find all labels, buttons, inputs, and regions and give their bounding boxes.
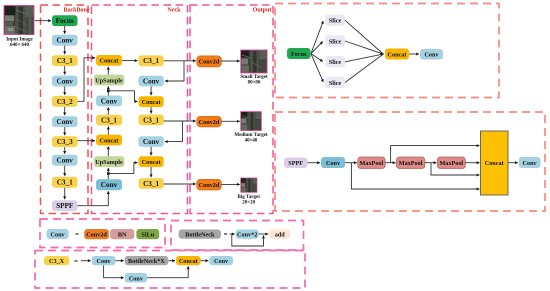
legend2 Conv*2	[236, 230, 259, 239]
svg-text:Focus: Focus	[291, 51, 307, 58]
wire C3_1(col2)->Conv(col2) up	[107, 107, 109, 114]
wire C3_2->Conv	[64, 107, 66, 115]
svg-text:Conv: Conv	[97, 258, 112, 265]
svg-text:Focus: Focus	[56, 17, 74, 25]
legend2 BottleNeck	[179, 230, 221, 239]
svg-text:Concat: Concat	[179, 258, 199, 265]
svg-text:Conv: Conv	[143, 78, 160, 86]
svg-text:SiLu: SiLu	[141, 232, 154, 239]
svg-text:Conv: Conv	[57, 118, 74, 126]
medium target image	[241, 112, 262, 131]
svg-text:BottleNeck*X: BottleNeck*X	[128, 258, 165, 265]
wire skip MaxPool1 up to Concat	[391, 146, 480, 163]
wire C3_3->Conv	[64, 147, 66, 154]
svg-text:C3_2: C3_2	[57, 98, 73, 106]
backbone Conv 2	[52, 76, 78, 87]
neck col2 UpSample top	[94, 75, 125, 86]
svg-text:SPPF: SPPF	[56, 202, 74, 210]
backbone Conv 1	[52, 35, 78, 46]
svg-text:Output: Output	[253, 8, 272, 14]
svg-text:C3_1: C3_1	[143, 180, 159, 188]
neck label	[168, 8, 182, 14]
svg-text:Conv: Conv	[57, 157, 74, 165]
wire Conv(col3)#2->Concat#2 down	[150, 147, 152, 155]
wire C3_2->Concat(col2) elbow	[78, 58, 96, 102]
backbone Conv 4	[52, 155, 78, 166]
wire UpSample top->Concat top up	[107, 67, 109, 75]
legend3 Concat	[176, 256, 201, 265]
legend2 equals	[224, 231, 228, 239]
legend3 wire BottleNeck*X->Concat	[168, 260, 175, 262]
svg-text:C3_X: C3_X	[49, 258, 65, 265]
neck col3 C3_1 mid	[139, 115, 164, 126]
backbone SPPF	[52, 200, 78, 211]
neck col3 Conv top	[139, 76, 164, 87]
wire MaxPool2->MaxPool3	[425, 162, 437, 164]
panel1 Slice 2	[325, 35, 345, 47]
svg-text:BackBone: BackBone	[63, 8, 89, 14]
svg-text:MaxPool: MaxPool	[439, 160, 463, 167]
wire Concat(col3)->C3_1 mid down	[150, 107, 152, 114]
backbone Conv 3	[52, 116, 78, 127]
svg-text:Conv: Conv	[51, 232, 66, 239]
legend1 equals	[75, 231, 79, 239]
panel2 MaxPool 1	[358, 157, 385, 169]
legend3 wire branch down to lower Conv	[104, 265, 124, 277]
svg-text:20×20: 20×20	[242, 200, 255, 205]
wire C3_1 bottom->Conv2d#3	[164, 183, 196, 185]
backbone C3_1	[52, 55, 78, 66]
legend3 Conv first	[92, 256, 116, 265]
svg-text:=: =	[224, 231, 228, 239]
legend3 wire lower Conv->Concat bottom	[147, 266, 188, 277]
neck col3 Conv bottom	[139, 136, 164, 147]
svg-text:Conv: Conv	[101, 181, 118, 189]
svg-text:40×40: 40×40	[245, 138, 258, 143]
wire C3_1->Conv	[64, 66, 66, 75]
sppf expansion dashed panel	[275, 112, 545, 211]
wire Concat(col2)->C3_1(col3)	[122, 60, 138, 62]
medium target caption	[234, 133, 268, 143]
wire Conv->C3_2	[64, 87, 66, 95]
backbone C3_1b	[52, 177, 78, 188]
svg-text:C3_3: C3_3	[57, 138, 73, 146]
neck col2 Concat top	[96, 55, 122, 66]
legend2 wire ->Conv*2	[230, 233, 235, 235]
output Conv2d big	[197, 179, 222, 190]
output Conv2d small	[197, 56, 222, 67]
panel2 Concat tall	[481, 131, 509, 195]
svg-text:Slice: Slice	[329, 80, 342, 87]
legend2 residual wire	[232, 235, 264, 247]
svg-text:BN: BN	[118, 232, 127, 239]
wire C3_1 mid->Conv2d#2 with branch	[164, 121, 196, 142]
neck col2 C3_1	[96, 115, 122, 126]
legend3 BottleNeck*X	[125, 256, 169, 265]
svg-text:C3_1: C3_1	[143, 116, 159, 124]
backbone label	[63, 8, 89, 14]
wire Conv(col2 bottom)->UpSample up	[107, 168, 109, 179]
panel2 Conv right	[519, 157, 541, 168]
wire lateral low: junction->Concat(col3)#2	[108, 163, 137, 174]
svg-text:Conv: Conv	[101, 97, 118, 105]
neck col3 Concat top	[139, 96, 164, 107]
svg-text:MaxPool: MaxPool	[399, 160, 423, 167]
svg-text:Slice: Slice	[329, 38, 342, 45]
legend1 Conv	[47, 229, 69, 239]
wire Concat->Conv panel1	[409, 53, 419, 55]
wire Conv2d#2->medium target	[221, 120, 240, 122]
wire Conv(col2)->UpSample top up	[107, 86, 109, 95]
output label	[253, 8, 272, 14]
svg-text:Concat: Concat	[100, 137, 120, 144]
wire skip MaxPool2 down to Concat	[431, 163, 480, 175]
svg-text:C3_1: C3_1	[101, 117, 117, 125]
legend3 equals	[74, 257, 78, 265]
svg-text:Neck: Neck	[168, 8, 182, 14]
svg-text:=: =	[74, 257, 78, 265]
svg-text:Concat: Concat	[142, 99, 162, 106]
legend3 lower Conv	[125, 273, 147, 283]
svg-text:Concat: Concat	[100, 58, 120, 65]
panel1 Focus	[287, 48, 311, 59]
wire Conv->C3_1	[64, 46, 66, 55]
svg-text:Conv: Conv	[523, 160, 538, 167]
neck col3 C3_1 bottom	[139, 178, 164, 189]
panel1 Slice 4	[325, 77, 345, 89]
wires Focus->Slices fan	[311, 21, 323, 82]
neck col2 UpSample bottom	[94, 156, 125, 167]
wire Conv->C3_3	[64, 127, 66, 135]
wire Conv->MaxPool1	[345, 162, 357, 164]
small target image	[241, 50, 267, 73]
wire input->Focus	[35, 20, 51, 22]
wires Slices->Concat fan	[345, 20, 384, 82]
svg-text:Input Image: Input Image	[6, 38, 33, 43]
svg-text:Concat: Concat	[142, 159, 162, 166]
wire SPPF->Conv(col2) elbow	[78, 191, 109, 206]
focus expansion dashed panel	[275, 4, 499, 98]
output dashed region	[190, 5, 273, 214]
svg-text:Conv*2: Conv*2	[237, 232, 257, 239]
svg-text:Conv: Conv	[214, 258, 229, 265]
svg-text:C3_1: C3_1	[57, 179, 73, 187]
svg-text:UpSample: UpSample	[95, 77, 123, 84]
legend3 wire Concat->Conv	[201, 260, 209, 262]
neck col2 Conv top	[96, 96, 122, 107]
output Conv2d medium	[197, 116, 222, 126]
neck dashed region	[92, 5, 188, 214]
legend1 BN	[110, 229, 134, 239]
legend1 Conv2d	[84, 229, 109, 239]
panel1 Conv	[420, 49, 443, 60]
panel2 SPPF	[284, 158, 308, 169]
svg-text:80×80: 80×80	[248, 80, 261, 85]
wire skip Conv down to Concat	[351, 163, 479, 189]
legend3 C3_X	[44, 256, 69, 265]
wire MaxPool3->Concat	[465, 162, 479, 164]
wire Concat#2->C3_1 bottom down	[150, 167, 152, 177]
neck col2 Concat bottom	[96, 135, 122, 146]
wire Conv2d#3->big target	[221, 183, 240, 185]
svg-text:Conv2d: Conv2d	[199, 59, 220, 66]
input image thumbnail	[4, 6, 34, 35]
wire Conv->C3_1b	[64, 166, 66, 176]
svg-text:C3_1: C3_1	[57, 57, 73, 65]
panel2 MaxPool 3	[437, 157, 465, 169]
neck col2 Conv bottom	[96, 179, 122, 190]
wire lateral up: junction->Concat(col3)#1	[108, 91, 137, 102]
svg-text:Concat: Concat	[485, 160, 505, 167]
legend2 add	[269, 230, 290, 239]
panel2 MaxPool 2	[397, 157, 425, 169]
svg-text:Conv: Conv	[57, 78, 74, 86]
panel1 Concat	[385, 49, 409, 60]
svg-text:C3_1: C3_1	[143, 57, 159, 65]
small target caption	[240, 75, 268, 85]
legend2 wire Conv*2->add	[259, 233, 269, 235]
wire C3_3->Concat2(col2)	[78, 140, 96, 142]
svg-text:Concat: Concat	[388, 51, 408, 58]
wire UpSample->Concat2(col2) up	[107, 146, 109, 156]
wire C3_1(col3)->Conv2d#1 with branch	[164, 61, 196, 81]
big target image	[241, 178, 257, 192]
svg-text:BottleNeck: BottleNeck	[185, 232, 215, 239]
svg-text:Slice: Slice	[329, 18, 342, 25]
input image caption	[6, 38, 33, 49]
svg-text:Slice: Slice	[329, 59, 342, 66]
svg-text:UpSample: UpSample	[95, 159, 123, 166]
legend1 dashed box	[40, 219, 165, 248]
svg-text:add: add	[275, 232, 286, 239]
panel1 Slice 1	[325, 15, 345, 27]
backbone C3_3	[52, 136, 78, 147]
legend3 wire ->Conv	[81, 260, 91, 262]
svg-text:MaxPool: MaxPool	[360, 160, 384, 167]
legend2 dashed box	[171, 221, 304, 251]
legend3 wire Conv->BottleNeck*X	[116, 260, 124, 262]
svg-text:Conv2d: Conv2d	[86, 232, 107, 239]
wire Concat->Conv panel2	[508, 162, 518, 164]
svg-text:SPPF: SPPF	[288, 160, 303, 167]
legend1 SiLu	[136, 229, 159, 239]
wire Conv(col3)->Concat(col3) down	[150, 86, 152, 95]
backbone dashed region	[41, 5, 89, 214]
svg-text:Conv2d: Conv2d	[199, 119, 220, 126]
panel1 Slice 3	[325, 56, 345, 68]
svg-text:Conv: Conv	[326, 160, 341, 167]
svg-text:Conv: Conv	[143, 138, 160, 146]
wire Conv2d#1->small target	[221, 60, 240, 62]
junction dot col2 upper	[107, 90, 110, 93]
backbone C3_2	[52, 96, 78, 107]
svg-text:=: =	[75, 231, 79, 239]
junction dot col2 lower	[107, 172, 110, 175]
legend3 dashed box	[35, 251, 305, 289]
wire Concat2(col2)->C3_1(col2) up	[107, 127, 109, 135]
big target caption	[238, 195, 261, 205]
neck col3 C3_1 top	[139, 55, 164, 66]
svg-text:Conv: Conv	[424, 52, 439, 59]
wire C3_1b->SPPF	[64, 188, 66, 200]
svg-text:Conv2d: Conv2d	[199, 182, 220, 189]
wire Focus->Conv	[64, 26, 66, 34]
legend3 Conv last	[209, 256, 233, 265]
wire SPPF->Conv panel2	[308, 162, 321, 164]
svg-text:Conv: Conv	[57, 37, 74, 45]
svg-text:Conv: Conv	[129, 275, 144, 282]
panel2 Conv left	[321, 157, 345, 168]
wire MaxPool1->MaxPool2	[385, 162, 395, 164]
svg-text:640× 640: 640× 640	[10, 43, 30, 48]
backbone Focus	[52, 15, 78, 26]
neck col3 Concat bottom	[139, 156, 164, 167]
